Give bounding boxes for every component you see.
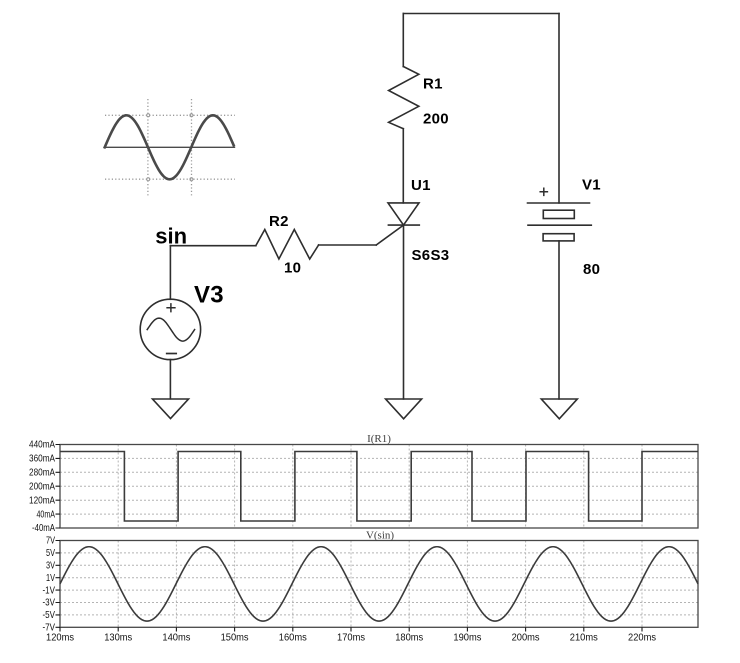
svg-text:200: 200: [423, 111, 449, 128]
ground for U1: [386, 399, 422, 419]
svg-text:-5V: -5V: [43, 610, 56, 621]
svg-text:V(sin): V(sin): [366, 529, 394, 541]
wire U1 cathode to ground: [403, 225, 405, 399]
thyristor U1: [388, 203, 419, 225]
svg-text:160ms: 160ms: [279, 633, 307, 644]
sine waveform thumbnail: [105, 99, 235, 196]
wire V1 to ground: [558, 241, 560, 399]
plus polarity mark V1: [540, 188, 547, 195]
svg-text:440mA: 440mA: [29, 440, 55, 451]
svg-text:220ms: 220ms: [628, 633, 656, 644]
plot I(R1) trace: [60, 452, 698, 522]
svg-text:120mA: 120mA: [29, 495, 55, 506]
resistor R1: [389, 67, 419, 129]
resistor R2: [256, 230, 319, 260]
svg-text:130ms: 130ms: [104, 633, 132, 644]
svg-text:3V: 3V: [46, 561, 55, 572]
ground for V3: [153, 399, 189, 419]
x-axis ticks: [60, 627, 642, 631]
wire V1 top: [558, 14, 560, 204]
plot I(R1) gridlines: [60, 445, 698, 529]
svg-text:170ms: 170ms: [337, 633, 365, 644]
svg-text:120ms: 120ms: [46, 633, 74, 644]
wire R1 to U1 anode: [402, 129, 404, 203]
wire gate horizontal: [319, 244, 377, 246]
svg-text:10: 10: [284, 260, 301, 277]
svg-text:V3: V3: [194, 282, 224, 309]
plot V(sin) trace: [60, 547, 698, 621]
svg-text:V1: V1: [582, 177, 601, 194]
wire sin node down to V3: [169, 246, 171, 300]
voltage source V3: [140, 299, 200, 359]
svg-text:200mA: 200mA: [29, 481, 55, 492]
svg-text:sin: sin: [155, 223, 187, 248]
svg-text:R1: R1: [423, 76, 443, 93]
svg-text:210ms: 210ms: [570, 633, 598, 644]
x-axis labels: [46, 633, 656, 644]
svg-text:190ms: 190ms: [453, 633, 481, 644]
wire sin node to R2: [170, 245, 255, 247]
svg-text:5V: 5V: [46, 548, 55, 559]
plot V(sin) y-axis ticks: [56, 541, 61, 628]
battery V1: [528, 203, 592, 241]
svg-text:140ms: 140ms: [162, 633, 190, 644]
ground for V1: [541, 399, 577, 419]
svg-text:I(R1): I(R1): [367, 433, 391, 445]
wire R1 top: [402, 14, 404, 67]
plot V(sin) y-axis labels: [43, 536, 56, 634]
svg-text:150ms: 150ms: [221, 633, 249, 644]
plot V(sin) gridlines: [60, 541, 698, 628]
svg-text:360mA: 360mA: [29, 454, 55, 465]
wire U1 gate diagonal: [376, 225, 403, 245]
svg-text:200ms: 200ms: [512, 633, 540, 644]
svg-text:-40mA: -40mA: [32, 523, 55, 534]
svg-text:U1: U1: [411, 177, 431, 194]
svg-text:R2: R2: [269, 213, 289, 230]
plot I(R1) y-axis labels: [29, 440, 55, 535]
svg-text:S6S3: S6S3: [412, 247, 450, 264]
svg-text:180ms: 180ms: [395, 633, 423, 644]
svg-text:80: 80: [583, 261, 600, 278]
svg-text:40mA: 40mA: [37, 509, 56, 520]
svg-text:1V: 1V: [46, 573, 55, 584]
svg-text:-1V: -1V: [43, 585, 56, 596]
wire V3 to ground: [169, 360, 171, 399]
plot V(sin) frame: [60, 541, 698, 628]
wire top horizontal: [403, 13, 559, 15]
svg-text:-3V: -3V: [43, 598, 56, 609]
svg-text:7V: 7V: [46, 536, 55, 547]
plot I(R1) frame: [60, 445, 698, 529]
svg-text:280mA: 280mA: [29, 468, 55, 479]
plot I(R1) y-axis ticks: [56, 445, 61, 529]
